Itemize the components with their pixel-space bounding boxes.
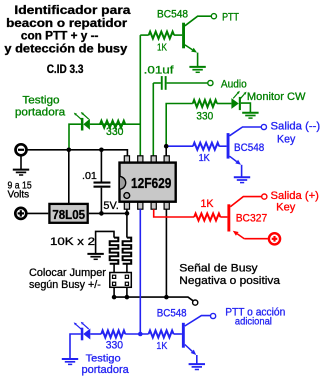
wire: ground bus	[27, 150, 128, 156]
terminal PTT	[211, 14, 216, 19]
resistor 1K (red)	[194, 214, 220, 221]
wire: cap to pin3	[152, 83, 154, 156]
svg-text:.01: .01	[82, 170, 97, 182]
wire: bus to 78L05 gnd pin	[68, 150, 70, 203]
transistor Q1 BC548 (green)	[182, 23, 185, 49]
wire: battery+ to 78L05	[26, 212, 48, 214]
svg-text:.01uf: .01uf	[144, 65, 175, 77]
svg-text:330: 330	[106, 126, 124, 138]
svg-text:Monitor CW: Monitor CW	[247, 91, 306, 103]
ground (bottom-left)	[62, 358, 78, 360]
terminal circled plus (red)	[269, 233, 280, 244]
LED Testigo portadora (blue)	[90, 333, 101, 335]
terminal Salida (--)	[261, 124, 266, 129]
wire: pin4 net to monitor row	[166, 104, 193, 147]
terminal plus (battery +)	[15, 208, 26, 219]
resistor 330 (blue)	[101, 331, 125, 338]
svg-text:330: 330	[106, 340, 123, 352]
resistor 330 (monitor, green)	[193, 100, 217, 107]
junction (101.4,149.8)	[99, 148, 104, 153]
svg-text:10K x 2: 10K x 2	[50, 236, 95, 248]
ground (battery -)	[20, 156, 22, 169]
terminal Salida (+)	[262, 194, 267, 199]
svg-text:portadora: portadora	[82, 364, 130, 376]
svg-text:330: 330	[196, 110, 213, 122]
terminal Audio	[208, 80, 213, 85]
regulator 78L05	[49, 204, 87, 223]
svg-text:beacon o repatidor: beacon o repatidor	[6, 17, 128, 30]
junction (166.2,146.2)	[164, 144, 169, 149]
wire: left 10K to ground	[96, 231, 114, 253]
ground (monitor LED)	[242, 112, 258, 114]
transistor Q2 BC548 (blue)	[227, 133, 230, 159]
wire: 10K bottoms to jumper	[113, 264, 115, 277]
svg-text:Colocar Jumper: Colocar Jumper	[29, 267, 106, 279]
svg-text:12F629: 12F629	[131, 175, 172, 192]
svg-text:Salida (--): Salida (--)	[271, 120, 321, 132]
svg-text:Testigo: Testigo	[86, 353, 121, 365]
ground (Q2)	[234, 176, 250, 178]
resistor 10K (right, vertical)	[123, 238, 132, 264]
resistor 1K (top, green)	[149, 32, 174, 39]
capacitor .01uf (green)	[153, 82, 161, 84]
svg-text:1K: 1K	[156, 341, 167, 352]
op-amp/IC U1 12F629	[119, 156, 175, 209]
svg-text:Volts: Volts	[8, 190, 30, 201]
svg-text:con PTT + y --: con PTT + y --	[21, 29, 99, 42]
wire: busy horizontal	[114, 297, 193, 301]
ground (Q1 emitter)	[189, 66, 205, 68]
wire: pin3 to red 1K	[154, 209, 195, 217]
svg-text:78L05: 78L05	[52, 207, 85, 222]
svg-text:BC548: BC548	[157, 9, 188, 21]
svg-text:Negativa o positiva: Negativa o positiva	[179, 275, 281, 287]
svg-text:PTT: PTT	[222, 11, 239, 23]
svg-text:BC548: BC548	[234, 142, 264, 154]
title text block	[4, 4, 131, 76]
ground (Q4)	[189, 363, 205, 365]
resistor 330 (testigo, green)	[100, 121, 125, 128]
junction (114.1,297.1)	[112, 295, 117, 300]
wire: pin2 vertical net (GP to 1K/LED)	[139, 35, 141, 156]
resistor 10K (left, vertical)	[110, 238, 119, 264]
ground (10K pulldown)	[87, 253, 103, 255]
svg-text:portadora: portadora	[15, 106, 66, 118]
transistor Q4 BC548 (blue bottom)	[182, 323, 185, 348]
LED Monitor CW (green)	[231, 98, 238, 109]
junction (140.3,334)	[138, 332, 143, 337]
svg-text:Salida (+): Salida (+)	[271, 190, 319, 202]
svg-text:BC327: BC327	[236, 213, 268, 225]
junction (126.9,297.1)	[125, 295, 130, 300]
svg-text:según Busy +/-: según Busy +/-	[29, 279, 101, 291]
svg-text:5V.: 5V.	[103, 200, 118, 212]
svg-text:1K: 1K	[157, 43, 167, 54]
LED Testigo portadora (green)	[90, 123, 140, 125]
wire: pin4-junction to blue 1K	[166, 145, 193, 147]
resistor 1K (blue mid)	[193, 143, 219, 150]
svg-text:adicional: adicional	[235, 316, 272, 328]
wire: pin7 down to bottom row	[139, 209, 141, 334]
svg-text:Key: Key	[276, 202, 296, 214]
junction (127,213.4)	[125, 211, 130, 216]
wire: pin5 to busy line	[165, 209, 167, 297]
svg-text:1K: 1K	[199, 153, 210, 164]
svg-text:BC548: BC548	[157, 308, 187, 320]
junction (68.8,149.8)	[67, 148, 72, 153]
resistor 1K (blue bottom)	[149, 331, 174, 338]
terminal minus (battery -)	[16, 144, 27, 155]
wire: 5V line	[89, 212, 127, 214]
svg-text:Key: Key	[277, 134, 296, 146]
terminal PTT adicional	[211, 313, 216, 318]
junction (101.4,213.4)	[99, 211, 104, 216]
capacitor .01 (black)	[100, 150, 102, 182]
svg-text:1K: 1K	[201, 198, 215, 210]
svg-text:Señal de Busy: Señal de Busy	[179, 263, 258, 275]
svg-text:Identificador para: Identificador para	[14, 4, 131, 17]
jumper block	[110, 273, 132, 288]
junction (166.4,297.1)	[164, 295, 169, 300]
terminal busy	[193, 300, 198, 305]
wire: base row to resistor	[140, 34, 148, 36]
svg-text:Audio: Audio	[221, 79, 247, 91]
svg-text:Testigo: Testigo	[22, 94, 59, 106]
transistor Q3 BC327 (red, PNP)	[227, 204, 230, 231]
wire: pin1 top stub handled in bus; pin8 bottom to 5V/10K	[126, 209, 128, 237]
svg-text:C.ID 3.3: C.ID 3.3	[47, 63, 84, 76]
svg-text:y detección de busy: y detección de busy	[4, 42, 128, 55]
